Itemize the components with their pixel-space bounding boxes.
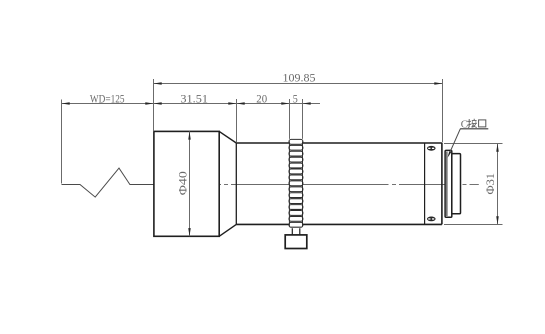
front barrel Φ40 xyxy=(154,131,219,236)
label C接口 underline xyxy=(460,128,488,130)
dimension 20 xyxy=(237,94,290,106)
label 接 (hand drawn) xyxy=(467,119,477,128)
svg-text:Φ40: Φ40 xyxy=(177,171,189,195)
C-mount ring 1 xyxy=(445,150,452,217)
svg-text:Φ31: Φ31 xyxy=(485,173,497,195)
svg-text:C: C xyxy=(461,119,468,130)
svg-text:31.51: 31.51 xyxy=(180,93,208,105)
extension line object plane xyxy=(61,100,63,184)
svg-text:20: 20 xyxy=(256,94,267,106)
extension line knurl right xyxy=(302,99,304,139)
extension lines Φ31 xyxy=(444,143,503,145)
locking screw stem xyxy=(292,228,300,235)
C-mount ring 2 (thread) xyxy=(452,154,461,214)
dimension 31.51 xyxy=(154,93,237,105)
dimension Φ40 xyxy=(177,131,190,236)
svg-text:WD=125: WD=125 xyxy=(90,93,125,105)
rear screw bottom xyxy=(427,217,436,222)
cone/tube junction line xyxy=(235,143,237,224)
extension line knurl left xyxy=(289,99,291,139)
taper cone xyxy=(219,131,236,236)
label 口 (hand drawn) xyxy=(479,120,486,127)
rear groove line xyxy=(424,143,426,224)
knurled focus ring xyxy=(289,139,303,227)
leader line C-mount xyxy=(448,129,461,158)
centerline (optical axis) xyxy=(131,184,479,186)
dimension Φ31 xyxy=(485,144,499,225)
rear screw top xyxy=(427,146,436,151)
dimension 5 xyxy=(290,94,321,106)
extension line front face xyxy=(153,79,155,131)
svg-text:109.85: 109.85 xyxy=(283,72,316,84)
dimension WD=125 xyxy=(62,93,154,105)
locking screw knob xyxy=(285,235,307,249)
extension line tube start xyxy=(236,99,238,143)
main tube Φ31 xyxy=(236,143,442,224)
dimension 109.85 xyxy=(154,72,443,84)
object plane break line (zigzag) xyxy=(62,168,154,197)
extension line rear face xyxy=(442,79,444,143)
svg-text:5: 5 xyxy=(293,94,298,106)
